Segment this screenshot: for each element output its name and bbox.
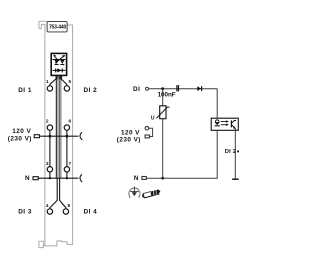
terminal 1: [46, 79, 53, 91]
wire terminal3 to N line: [49, 172, 51, 178]
node varistor top junction: [161, 87, 164, 90]
diode in LED box: [53, 68, 66, 72]
diode D1 on top wire: [197, 86, 201, 91]
junction dots 120V line: [49, 135, 52, 138]
optocoupler LED: [215, 120, 220, 126]
optocoupler phototransistor: [231, 120, 236, 130]
optocoupler box: [211, 118, 238, 130]
earth electrode icon: [129, 187, 140, 199]
varistor RV: [151, 106, 170, 122]
N terminal square: [142, 177, 146, 180]
node varistor bottom junction: [161, 177, 164, 180]
wire terminal5 to bus: [61, 75, 67, 85]
wire DI top: [149, 88, 218, 90]
svg-text:7: 7: [69, 161, 72, 167]
terminal 7: [64, 161, 71, 172]
LED pair with emission arrows: [53, 55, 66, 65]
svg-text:N: N: [25, 175, 30, 182]
capacitor C1 plates: [177, 85, 179, 91]
svg-text:N: N: [134, 175, 139, 182]
module outline 753 body: [39, 21, 73, 247]
wire terminal8 up through N to bus: [60, 178, 66, 209]
marking wedge icon: [142, 189, 162, 198]
wire terminal7 to N line: [66, 172, 68, 178]
wire optocoupler output down: [234, 130, 236, 179]
svg-text:DI 4: DI 4: [84, 209, 98, 216]
terminal 6: [64, 119, 71, 131]
voltage bracket square terminal: [145, 135, 149, 138]
wire terminal4 up through N to bus: [50, 178, 57, 209]
svg-text:3: 3: [46, 161, 49, 167]
terminal 4: [46, 203, 53, 214]
svg-text:100nF: 100nF: [158, 92, 176, 99]
terminal 3: [46, 161, 53, 172]
svg-text:6: 6: [69, 119, 72, 125]
svg-text:120 V: 120 V: [121, 129, 140, 136]
svg-text:DI 2: DI 2: [225, 149, 236, 155]
svg-text:(230 V): (230 V): [8, 135, 32, 142]
svg-text:DI 1: DI 1: [18, 87, 32, 94]
svg-text:(230 V): (230 V): [117, 137, 141, 144]
wire N bottom: [146, 130, 217, 178]
terminal 8: [63, 203, 70, 214]
svg-text:120 V: 120 V: [12, 128, 31, 135]
N line with left connector: [33, 177, 78, 180]
internal bus band: [56, 75, 62, 177]
wire terminal1 to bus: [50, 75, 56, 85]
terminal 5: [64, 79, 71, 91]
voltage bracket circle terminal: [145, 126, 149, 130]
terminal 2: [46, 119, 53, 131]
svg-text:753-440: 753-440: [49, 24, 66, 30]
svg-text:5: 5: [69, 79, 72, 85]
wire terminal2 to terminal3: [49, 130, 51, 166]
LED indicator box: [51, 53, 66, 75]
power jumper contact 120V: [80, 132, 82, 140]
svg-text:DI 2: DI 2: [84, 87, 98, 94]
wire right vertical down to optocoupler: [216, 89, 218, 119]
svg-text:2: 2: [46, 119, 49, 125]
svg-text:1: 1: [46, 79, 49, 85]
output terminal bar: [232, 178, 239, 180]
svg-text:4: 4: [46, 203, 49, 209]
wire terminal6 to terminal7: [66, 130, 68, 166]
voltage bracket wire: [149, 128, 153, 136]
varistor RV branch wire: [162, 89, 164, 179]
120V supply line with left connector: [34, 135, 78, 138]
LED box lead ticks: [56, 75, 62, 79]
DI input terminal: [146, 87, 149, 90]
power jumper contact N: [80, 174, 82, 182]
svg-text:U: U: [151, 116, 155, 122]
svg-text:DI: DI: [133, 86, 140, 93]
svg-text:8: 8: [68, 203, 71, 209]
optocoupler light arrows: [221, 120, 229, 126]
svg-text:DI 3: DI 3: [18, 209, 32, 216]
order number box 753-440: [47, 21, 67, 32]
label DI 2 output: [225, 149, 239, 155]
junction dots N line: [49, 177, 51, 179]
